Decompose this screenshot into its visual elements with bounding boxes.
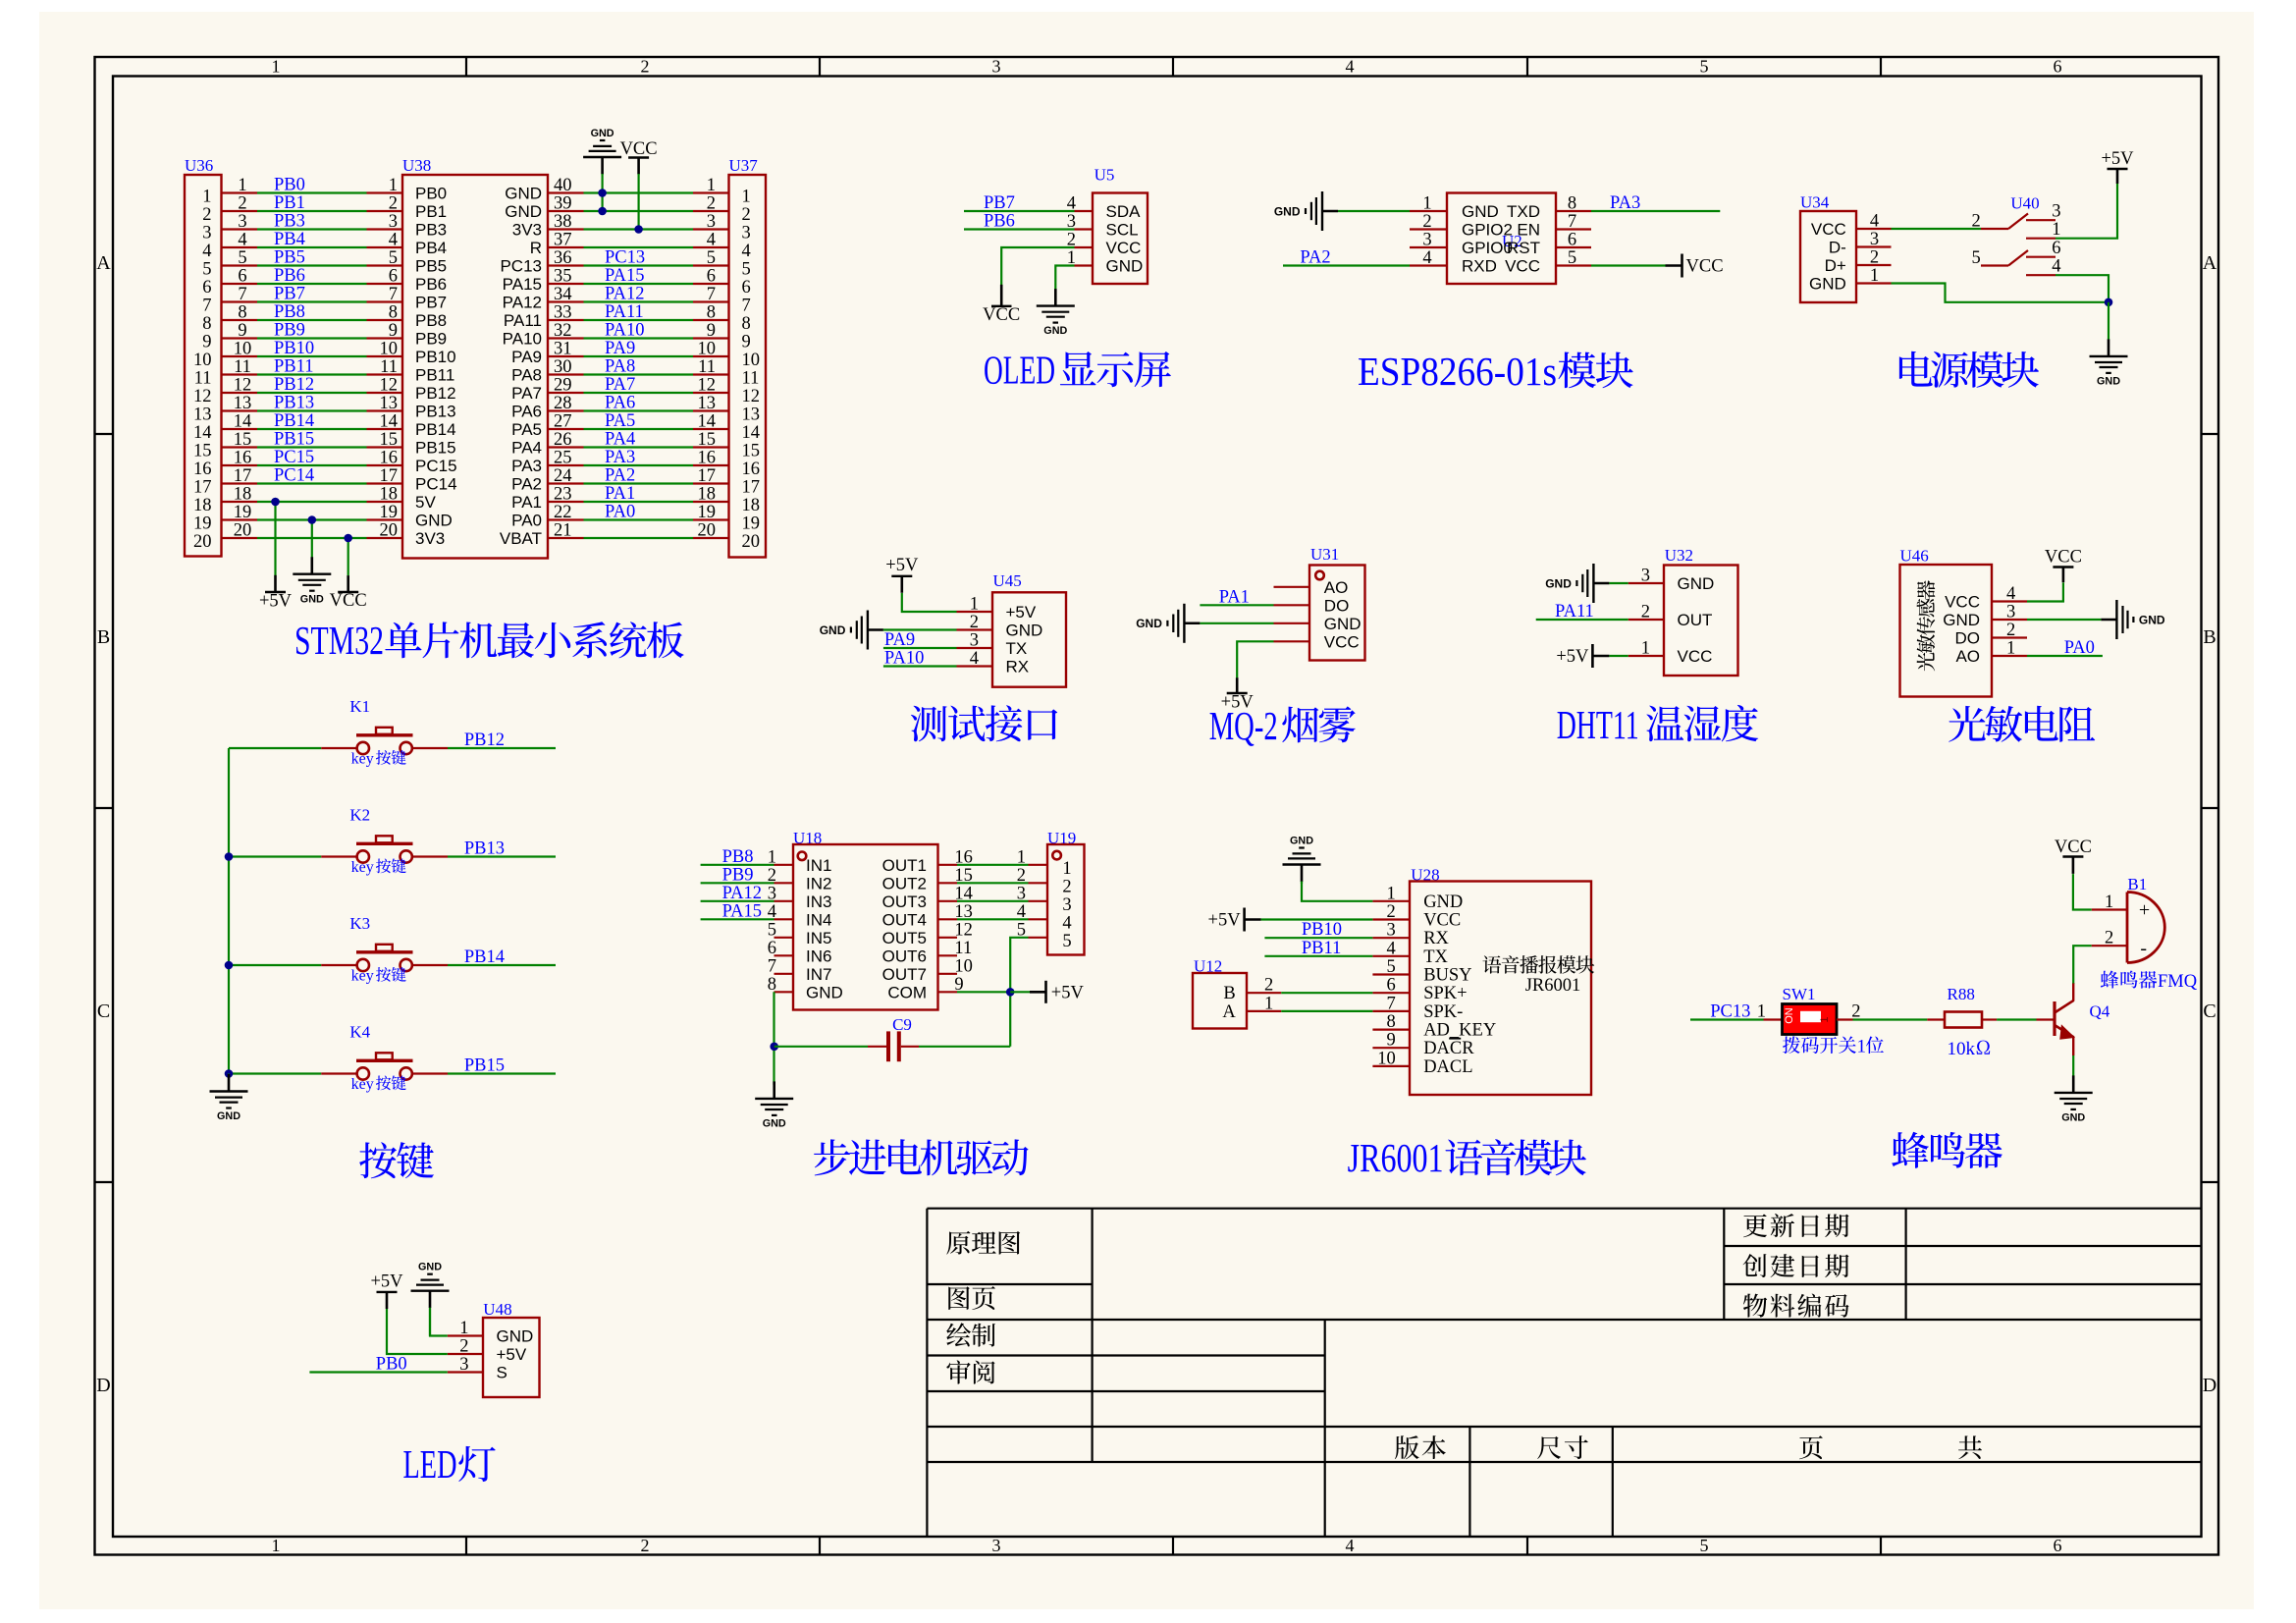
svg-text:14: 14 <box>698 412 717 432</box>
junction at GND/pin40 <box>598 189 607 197</box>
svg-text:PC14: PC14 <box>274 466 314 486</box>
net label PA2 <box>1300 248 1330 268</box>
svg-text:6: 6 <box>2054 1536 2062 1555</box>
svg-text:5: 5 <box>238 248 246 268</box>
wire U36.16 to U38.16 <box>257 464 367 466</box>
svg-text:PA12: PA12 <box>722 884 762 903</box>
wire Q4 collector to B1 pin2 <box>2073 946 2092 983</box>
svg-text:PA12: PA12 <box>605 285 644 304</box>
svg-text:GND: GND <box>505 202 542 221</box>
svg-text:13: 13 <box>698 394 717 413</box>
U2 pin 5 stub/number/name VCC <box>1505 248 1591 276</box>
svg-text:PB11: PB11 <box>1302 939 1341 958</box>
wire U38.31 to U37.10 <box>584 355 694 357</box>
svg-text:PA2: PA2 <box>605 466 635 486</box>
svg-text:PA0: PA0 <box>605 503 635 522</box>
svg-text:13: 13 <box>380 394 399 413</box>
U31 pin stub/name DO <box>1274 596 1350 615</box>
svg-text:PB15: PB15 <box>464 1056 505 1076</box>
svg-text:1: 1 <box>1422 194 1431 214</box>
U38 pin 25 stub, number, name <box>511 449 583 476</box>
svg-text:33: 33 <box>554 303 572 323</box>
svg-text:7: 7 <box>238 285 246 304</box>
U37 pin 8 stub and numbers <box>693 303 751 335</box>
wire GND row19 to ground <box>311 520 313 558</box>
wire Q4 emitter to ground <box>2072 1055 2074 1075</box>
wire U38.22 to U37.19 <box>584 518 694 520</box>
U48 pin 3 stub/number/name S <box>448 1355 507 1382</box>
svg-text:10: 10 <box>698 340 717 359</box>
svg-text:U38: U38 <box>402 156 431 175</box>
svg-text:VCC: VCC <box>2045 547 2082 567</box>
U31 pin stub/name GND <box>1274 615 1362 633</box>
svg-text:PB7: PB7 <box>274 285 305 304</box>
svg-text:PA9: PA9 <box>884 630 915 650</box>
title block label 物料编码 <box>1743 1293 1849 1317</box>
net label PA9 <box>884 630 915 650</box>
U36 pin 8 stub and number <box>202 303 257 335</box>
svg-text:3: 3 <box>707 212 716 232</box>
U38 pin 37 stub, number, name <box>530 231 584 258</box>
svg-text:D-: D- <box>1829 239 1846 257</box>
U38 pin 24 stub, number, name <box>511 466 583 494</box>
svg-text:PB12: PB12 <box>464 730 505 750</box>
svg-text:15: 15 <box>193 442 212 461</box>
wire U38.23 to U37.18 <box>584 501 694 503</box>
U38 pin 1 stub, number, name <box>367 176 448 203</box>
wire U38.25 to U37.16 <box>584 464 694 466</box>
svg-text:6: 6 <box>238 267 246 287</box>
net label PA3 <box>605 448 635 467</box>
svg-text:RXD: RXD <box>1462 257 1497 276</box>
section title OLED显示屏 <box>984 348 1171 393</box>
junction +5V row18 <box>271 498 280 507</box>
svg-text:U40: U40 <box>2010 194 2039 213</box>
wire U36.14 to U38.14 <box>257 428 367 430</box>
svg-text:EN: EN <box>1517 221 1540 240</box>
net label PA12 <box>605 285 644 304</box>
svg-text:PB13: PB13 <box>415 403 456 421</box>
wire U38.21 to U37.20 <box>584 537 694 539</box>
svg-text:C: C <box>2203 1001 2216 1022</box>
net label PB13 <box>464 839 505 859</box>
wire U38.30 to U37.11 <box>584 373 694 375</box>
svg-text:16: 16 <box>193 460 212 479</box>
wire PB8 to U18 IN1 <box>701 864 774 866</box>
U31 pin stub/name VCC <box>1274 632 1360 651</box>
svg-text:U48: U48 <box>483 1300 511 1319</box>
svg-text:FMQ: FMQ <box>2158 972 2198 992</box>
U38 pin 28 stub, number, name <box>511 394 583 421</box>
U5 pin 3 stub/number/name SCL <box>1067 212 1139 240</box>
U37 pin 14 stub and numbers <box>693 412 760 444</box>
svg-text:IN4: IN4 <box>806 910 831 929</box>
U36 pin 6 stub and number <box>202 267 257 298</box>
section title 蜂鸣器 <box>1892 1132 2002 1168</box>
svg-text:ESP8266-01s: ESP8266-01s <box>1358 349 1557 394</box>
section title LED灯 <box>403 1441 496 1487</box>
power +5V above switch <box>2101 149 2134 184</box>
svg-text:GND: GND <box>1545 576 1572 590</box>
ground GND at U45 <box>820 611 883 650</box>
svg-text:6: 6 <box>2052 239 2060 258</box>
wire U38.32 to U37.9 <box>584 337 694 339</box>
svg-text:JR6001: JR6001 <box>1348 1135 1444 1180</box>
title block label 审阅 <box>946 1360 994 1383</box>
U2 pin 6 stub/number/name RST <box>1507 231 1591 258</box>
svg-text:7: 7 <box>202 297 211 316</box>
U37 pin 4 stub and numbers <box>693 231 751 262</box>
wire U36.3 to U38.3 <box>257 228 367 230</box>
svg-text:9: 9 <box>389 321 398 341</box>
ground GND at DHT11 <box>1545 564 1609 603</box>
svg-text:GND: GND <box>1462 202 1499 221</box>
svg-text:PA10: PA10 <box>605 321 644 341</box>
U38 pin 22 stub, number, name <box>511 503 583 530</box>
svg-text:23: 23 <box>554 485 572 505</box>
svg-text:16: 16 <box>698 449 717 468</box>
U38 pin 4 stub, number, name <box>367 231 448 258</box>
net label PB12 <box>464 730 505 750</box>
svg-text:PB10: PB10 <box>415 348 456 366</box>
U18 pin 6 stub/number/name IN6 <box>768 939 832 966</box>
B1 pin 1 stub/number <box>2092 893 2127 912</box>
U38 pin 40 stub, number, name <box>505 176 583 203</box>
svg-text:3: 3 <box>992 57 1001 77</box>
label key按键 of K1 <box>351 750 406 768</box>
U45 pin 2 stub/number/name GND <box>957 613 1043 640</box>
svg-text:6: 6 <box>1568 231 1576 250</box>
IC U34 <box>1800 211 1856 302</box>
svg-text:4: 4 <box>1386 939 1395 958</box>
power VCC below OLED <box>983 285 1020 325</box>
svg-text:17: 17 <box>193 478 212 498</box>
U2 pin 7 stub/number/name EN <box>1517 212 1591 240</box>
svg-text:20: 20 <box>380 521 399 541</box>
svg-text:1: 1 <box>272 1536 281 1555</box>
wire PB7 to U5 SDA <box>964 210 1075 212</box>
svg-text:4: 4 <box>2006 584 2015 604</box>
U36 pin 3 stub and number <box>202 212 257 243</box>
svg-text:PB9: PB9 <box>415 330 447 349</box>
junction bus at K4 <box>225 1069 234 1078</box>
IC U5 <box>1093 193 1148 285</box>
U38 pin 32 stub, number, name <box>503 321 584 349</box>
connector U36 <box>185 175 222 557</box>
svg-text:2: 2 <box>1641 603 1650 622</box>
svg-text:GND: GND <box>1274 204 1301 218</box>
U37 pin 10 stub and numbers <box>693 340 760 371</box>
pushbutton K3 <box>321 914 448 971</box>
U36 pin 14 stub and number <box>193 412 257 444</box>
U18 pin 13 stub/number/name OUT4 <box>882 902 973 930</box>
svg-text:32: 32 <box>554 321 572 341</box>
svg-text:GND: GND <box>1423 893 1463 912</box>
svg-text:SW1: SW1 <box>1783 985 1816 1003</box>
U28 pin 6 stub/number/name SPK+ <box>1372 976 1467 1004</box>
svg-text:6: 6 <box>742 278 751 298</box>
svg-text:15: 15 <box>742 442 761 461</box>
net label PA15 <box>722 901 762 921</box>
wire +5V to U32 VCC <box>1609 655 1628 657</box>
wire U36.4 to U38.4 <box>257 246 367 248</box>
svg-text:PB8: PB8 <box>415 311 447 330</box>
svg-text:12: 12 <box>193 387 212 406</box>
svg-text:B: B <box>1223 984 1235 1003</box>
svg-text:9: 9 <box>742 333 751 352</box>
net label PB11 <box>274 357 313 377</box>
svg-text:PB7: PB7 <box>984 193 1015 213</box>
svg-text:5: 5 <box>1700 57 1709 77</box>
svg-text:C: C <box>97 1001 110 1022</box>
svg-text:5: 5 <box>202 260 211 280</box>
svg-text:PC13: PC13 <box>500 257 542 276</box>
power +5V below U36 <box>259 575 293 612</box>
svg-text:24: 24 <box>554 466 572 486</box>
buzzer B1 <box>2127 893 2164 963</box>
svg-text:C9: C9 <box>892 1015 912 1034</box>
wire PC13 to SW1 <box>1690 1018 1764 1020</box>
svg-text:PA6: PA6 <box>511 403 542 421</box>
power VCC above U46 <box>2045 547 2082 582</box>
svg-text:4: 4 <box>1062 913 1071 933</box>
ground GND above JR6001 <box>1283 836 1321 885</box>
svg-text:OLED: OLED <box>984 348 1055 393</box>
svg-text:SPK+: SPK+ <box>1423 984 1467 1003</box>
svg-text:7: 7 <box>768 956 776 976</box>
U38 pin 13 stub, number, name <box>367 394 456 421</box>
U37 pin 16 stub and numbers <box>693 449 760 480</box>
junction bus at K3 <box>225 961 234 970</box>
title block label 绘制 <box>946 1323 995 1346</box>
svg-text:PA5: PA5 <box>511 420 542 439</box>
svg-text:PA6: PA6 <box>605 394 635 413</box>
svg-text:VCC: VCC <box>1678 647 1713 666</box>
svg-text:DO: DO <box>1324 596 1350 615</box>
svg-text:VCC: VCC <box>330 591 367 611</box>
svg-text:6: 6 <box>707 267 716 287</box>
U38 pin 33 stub, number, name <box>504 303 584 331</box>
net label PA12 <box>722 884 762 903</box>
net label PB10 <box>1302 920 1342 940</box>
U38 pin 27 stub, number, name <box>511 412 583 440</box>
wire U18 OUT3 to U19 pin 3 <box>957 900 1029 902</box>
svg-text:10: 10 <box>742 351 761 370</box>
U18 pin 5 stub/number/name IN5 <box>768 920 832 947</box>
wire U5 GND down to ground <box>1055 266 1074 286</box>
svg-text:6: 6 <box>768 939 776 958</box>
svg-text:1: 1 <box>459 1319 468 1338</box>
svg-text:12: 12 <box>742 387 761 406</box>
U31 pin1 dot <box>1315 571 1324 580</box>
net label PA9 <box>605 339 635 358</box>
svg-text:PB8: PB8 <box>274 302 305 322</box>
U38 pin 31 stub, number, name <box>511 340 583 367</box>
svg-text:4: 4 <box>742 242 751 261</box>
svg-text:GND: GND <box>300 594 324 606</box>
svg-text:1: 1 <box>970 595 979 615</box>
wire U18 OUT4 to U19 pin 4 <box>957 918 1029 920</box>
net label PB14 <box>274 411 314 431</box>
IC U28 <box>1410 882 1591 1096</box>
svg-text:PB4: PB4 <box>274 230 305 249</box>
wire switch pin4 to ground junction <box>2056 275 2109 302</box>
svg-text:ON: ON <box>1784 1007 1795 1024</box>
svg-text:PA8: PA8 <box>511 366 542 385</box>
net label PA11 <box>1555 602 1594 622</box>
svg-text:1: 1 <box>2052 220 2060 240</box>
U18 pin 3 stub/number/name IN3 <box>768 884 832 911</box>
svg-text:GND: GND <box>1136 617 1162 630</box>
ground below stepper <box>755 1081 793 1129</box>
U38 pin 2 stub, number, name <box>367 194 448 222</box>
U45 pin 4 stub/number/name RX <box>957 649 1030 676</box>
U32 pin 1 stub/number/name VCC <box>1629 639 1713 667</box>
U36 pin 12 stub and number <box>193 376 257 407</box>
wire U18 OUT1 to U19 pin 1 <box>957 864 1029 866</box>
U37 pin 3 stub and numbers <box>693 212 751 243</box>
ground below OLED <box>1037 285 1075 337</box>
title block label 页 <box>1799 1435 1823 1459</box>
U38 pin 8 stub, number, name <box>367 303 448 331</box>
pushbutton K4 <box>321 1023 448 1080</box>
net label PB5 <box>274 248 305 268</box>
wire K1 to PB12 <box>448 747 556 749</box>
U18 pin1 dot <box>798 852 807 861</box>
svg-text:4: 4 <box>238 231 246 250</box>
svg-text:GND: GND <box>217 1110 240 1122</box>
U36 pin 7 stub and number <box>202 285 257 316</box>
svg-text:VCC: VCC <box>2055 838 2092 857</box>
svg-text:3: 3 <box>1062 895 1071 915</box>
U28 internal label 语音播报模块 JR6001 <box>1482 955 1594 996</box>
svg-text:12: 12 <box>380 376 399 396</box>
junction GND row19 <box>308 515 317 524</box>
net label PA6 <box>605 394 635 413</box>
title block label 创建日期 <box>1743 1254 1849 1277</box>
B1 pin 2 stub/number <box>2092 929 2127 948</box>
U18 pin 9 stub/number/name COM <box>887 975 963 1002</box>
wire U38.39 to U37.2 <box>584 210 694 212</box>
VCC power symbol above U38 <box>620 139 658 230</box>
wire +5V net to U19 pin5 <box>1010 938 1028 1047</box>
U38 pin 26 stub, number, name <box>511 430 583 458</box>
svg-text:15: 15 <box>380 430 399 450</box>
svg-text:2: 2 <box>641 1536 650 1555</box>
svg-text:PB15: PB15 <box>274 430 314 450</box>
wire U38.38 to U37.3 <box>584 228 694 230</box>
svg-text:3: 3 <box>238 212 246 232</box>
wire U36.9 to U38.9 <box>257 337 367 339</box>
wire U36.12 to U38.12 <box>257 392 367 394</box>
svg-text:PB1: PB1 <box>415 202 447 221</box>
wire PB9 to U18 IN2 <box>701 882 774 884</box>
svg-text:8: 8 <box>389 303 398 323</box>
title block label 更新日期 <box>1743 1214 1848 1237</box>
svg-text:4: 4 <box>970 649 979 669</box>
svg-text:PA12: PA12 <box>503 294 542 312</box>
net label PC13 <box>605 248 645 268</box>
IC U31 <box>1309 566 1365 661</box>
svg-text:2: 2 <box>2105 929 2113 948</box>
U38 pin 12 stub, number, name <box>367 376 456 404</box>
wire switch pin1 to +5V <box>2056 184 2117 239</box>
svg-text:34: 34 <box>554 285 572 304</box>
svg-text:1: 1 <box>1062 859 1071 879</box>
wire PB6 to U5 SCL <box>964 228 1075 230</box>
svg-text:PA3: PA3 <box>605 448 635 467</box>
svg-text:RX: RX <box>1006 658 1030 676</box>
net label PC14 <box>274 466 314 486</box>
svg-text:26: 26 <box>554 430 572 450</box>
svg-text:PA2: PA2 <box>511 475 542 494</box>
net label PB12 <box>274 375 314 395</box>
power +5V above U45 <box>885 556 919 593</box>
U38 pin 18 stub, number, name <box>367 485 437 513</box>
svg-text:PC15: PC15 <box>274 448 314 467</box>
wire PB10 to U28 RX <box>1264 937 1372 939</box>
ground GND at MQ-2 <box>1136 604 1200 643</box>
svg-text:OUT2: OUT2 <box>882 874 927 893</box>
SW1 pin2 stub <box>1837 1018 1853 1020</box>
svg-text:3: 3 <box>1641 567 1650 586</box>
svg-text:PB12: PB12 <box>274 375 314 395</box>
svg-text:K2: K2 <box>349 806 370 825</box>
svg-text:VCC: VCC <box>1945 593 1980 612</box>
U37 pin 11 stub and numbers <box>693 357 759 389</box>
U2 pin 2 stub/number/name GPIO2 <box>1410 212 1513 240</box>
U48 pin 1 stub/number/name GND <box>448 1319 533 1346</box>
wire +5V to U45 pin1 <box>902 593 957 612</box>
svg-text:17: 17 <box>742 478 761 498</box>
svg-text:5: 5 <box>1972 248 1981 268</box>
svg-text:B: B <box>2203 626 2216 648</box>
svg-text:11: 11 <box>954 939 972 958</box>
svg-text:10: 10 <box>380 340 399 359</box>
transistor Q4 <box>2037 983 2075 1055</box>
U18 pin 14 stub/number/name OUT3 <box>882 884 973 911</box>
power +5V <box>1556 644 1609 668</box>
section title 按键 <box>359 1142 434 1178</box>
U38 pin 16 stub, number, name <box>367 449 457 476</box>
svg-text:3: 3 <box>2052 202 2060 222</box>
svg-text:U46: U46 <box>1900 547 1929 566</box>
wire switch pin5 dangling <box>0 0 1 1</box>
svg-text:1: 1 <box>2006 639 2015 659</box>
svg-text:PB6: PB6 <box>415 275 447 294</box>
wire U12 B to U28 SPK+ <box>1281 992 1372 994</box>
svg-text:K3: K3 <box>349 914 370 933</box>
svg-text:PB15: PB15 <box>415 439 456 458</box>
svg-text:3: 3 <box>1870 230 1879 249</box>
svg-text:4: 4 <box>2052 257 2060 277</box>
wire PA9 to U45 TX <box>883 647 957 649</box>
svg-text:D: D <box>2203 1375 2216 1396</box>
svg-text:GND: GND <box>1290 836 1313 847</box>
svg-text:PB4: PB4 <box>415 239 447 257</box>
svg-text:SPK-: SPK- <box>1423 1002 1463 1022</box>
U38 pin 34 stub, number, name <box>503 285 584 312</box>
U36 pin 1 stub and number <box>202 176 257 207</box>
svg-text:PA11: PA11 <box>504 311 542 330</box>
svg-text:VCC: VCC <box>1686 257 1724 277</box>
svg-text:+5V: +5V <box>1006 603 1037 622</box>
svg-text:GPIO0: GPIO0 <box>1462 239 1513 257</box>
svg-text:13: 13 <box>234 394 252 413</box>
svg-text:U36: U36 <box>185 156 213 175</box>
svg-text:IN5: IN5 <box>806 929 831 947</box>
label 蜂鸣器FMQ <box>2101 971 2198 992</box>
